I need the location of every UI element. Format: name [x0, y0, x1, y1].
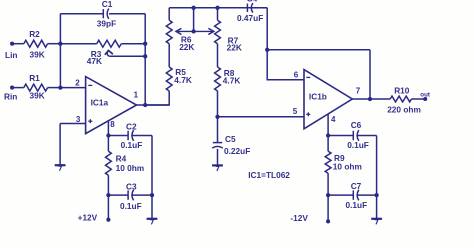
- svg-text:0.22uF: 0.22uF: [224, 146, 250, 156]
- wire C6 right column drop: [376, 136, 378, 196]
- svg-text:8: 8: [110, 120, 115, 129]
- node Lin input terminal: [10, 42, 14, 46]
- node R4-C3 junction: [106, 193, 110, 197]
- svg-text:C3: C3: [126, 181, 137, 191]
- capacitor C1: [102, 9, 104, 18]
- resistor R1: [24, 84, 48, 91]
- svg-text:IC1a: IC1a: [91, 97, 109, 107]
- capacitor C6: [352, 131, 354, 140]
- svg-text:39K: 39K: [30, 49, 45, 59]
- wire C1 top right: [109, 13, 145, 15]
- node C3 right junction: [150, 193, 154, 197]
- wire C4 drop: [267, 8, 304, 80]
- wiper arrow to R6: [176, 30, 213, 32]
- svg-text:0.1uF: 0.1uF: [347, 140, 369, 150]
- svg-text:220 ohm: 220 ohm: [387, 105, 421, 115]
- svg-text:2: 2: [75, 79, 80, 88]
- ground C7 column: [371, 218, 382, 220]
- wire R7 to R8: [217, 44, 219, 67]
- wire IC1b feedback drop: [369, 50, 371, 99]
- svg-text:C4: C4: [247, 0, 258, 4]
- wire node column vertical: [59, 14, 61, 88]
- capacitor C2: [127, 131, 129, 140]
- wire IC1a output: [137, 104, 170, 106]
- svg-text:R10: R10: [394, 86, 410, 96]
- svg-text:R2: R2: [29, 29, 40, 39]
- resistor R4: [106, 151, 112, 175]
- node Rin input terminal: [10, 86, 14, 90]
- resistor R9: [325, 151, 331, 173]
- node wiper junction: [191, 29, 195, 33]
- svg-text:R4: R4: [116, 154, 127, 164]
- resistor R8: [215, 67, 221, 91]
- ground pin3: [55, 164, 66, 166]
- wire +12V stub: [107, 195, 109, 220]
- node rail-wiper junction: [191, 6, 195, 10]
- wire IC1a pin 8: [107, 121, 109, 136]
- wire wiper stub: [193, 8, 195, 32]
- wire R2 to node A: [48, 43, 61, 45]
- node feedback-R3 junction: [143, 42, 147, 46]
- svg-text:4.7K: 4.7K: [174, 75, 192, 85]
- svg-text:0.47uF: 0.47uF: [237, 13, 263, 23]
- svg-text:4: 4: [331, 115, 336, 124]
- wire R6 top stub: [168, 8, 170, 20]
- node pin4 junction: [326, 133, 330, 137]
- wire R6 to R5: [168, 44, 170, 67]
- node feedback-wiper junction: [143, 54, 147, 58]
- node C7 right junction: [374, 193, 378, 197]
- svg-text:47K: 47K: [87, 56, 102, 66]
- wire R7 top stub: [217, 8, 219, 20]
- wire C2 right column drop: [151, 136, 153, 196]
- node pin8 junction: [106, 133, 110, 137]
- wire top rail: [169, 7, 267, 9]
- svg-text:IC1b: IC1b: [309, 91, 327, 101]
- svg-text:1: 1: [134, 91, 139, 100]
- IC1a plus marker: [88, 120, 92, 122]
- resistor R7: [215, 20, 221, 44]
- IC1b minus marker: [306, 76, 310, 78]
- IC1b plus marker: [306, 113, 310, 115]
- wire R9 to C7 junction: [327, 173, 329, 195]
- wire C3 right: [132, 194, 152, 196]
- svg-text:out: out: [420, 91, 430, 98]
- wire R1 to node B: [48, 87, 61, 89]
- wire -12V stub: [327, 195, 329, 221]
- svg-text:7: 7: [356, 86, 361, 95]
- capacitor C3: [127, 190, 129, 199]
- node C4-feedback junction: [265, 48, 269, 52]
- node IC1a output junction: [143, 103, 147, 107]
- resistor R10: [390, 96, 411, 102]
- node A junction: [58, 42, 62, 46]
- op-amp IC1b: [304, 70, 352, 129]
- wire pin8 to C2: [108, 135, 128, 137]
- wire R10 to out: [412, 98, 426, 100]
- capacitor C5: [213, 142, 222, 144]
- wire R3 wiper: [110, 55, 145, 57]
- wire pin4 to R9: [327, 136, 329, 152]
- svg-text:0.1uF: 0.1uF: [120, 201, 142, 211]
- svg-text:22K: 22K: [227, 43, 242, 53]
- node B junction: [58, 85, 62, 89]
- ground C5: [212, 164, 223, 166]
- capacitor C7: [352, 190, 354, 199]
- svg-text:6: 6: [294, 70, 299, 79]
- resistor R3: [97, 40, 122, 47]
- svg-text:Rin: Rin: [4, 92, 17, 102]
- resistor R6: [166, 20, 172, 44]
- svg-text:C2: C2: [126, 121, 137, 131]
- svg-text:C5: C5: [225, 134, 236, 144]
- wire node A to R3: [60, 43, 96, 45]
- svg-text:0.1uF: 0.1uF: [346, 200, 368, 210]
- svg-text:39pF: 39pF: [97, 19, 116, 29]
- node rail-R7 junction: [215, 6, 219, 10]
- wire C7 right: [357, 194, 376, 196]
- node R9-C7 junction: [326, 193, 330, 197]
- wire C1 top left: [60, 13, 103, 15]
- op-amp IC1a: [86, 77, 137, 134]
- svg-text:R1: R1: [29, 73, 40, 83]
- IC1a minus marker: [88, 84, 92, 86]
- capacitor C4: [246, 4, 248, 12]
- ground C3 column: [147, 218, 158, 220]
- wire C7 column to ground: [376, 195, 378, 218]
- node -12V terminal: [326, 219, 330, 223]
- resistor R5: [166, 67, 172, 91]
- wire pin5 node to IC1b: [218, 116, 305, 118]
- resistor R2: [24, 40, 48, 47]
- node R8-C5 junction: [215, 115, 219, 119]
- svg-text:C1: C1: [102, 0, 113, 9]
- wiper arrow to R7: [209, 29, 214, 35]
- node out terminal: [423, 97, 427, 101]
- svg-text:39K: 39K: [30, 91, 45, 101]
- wiper arrow R3: [107, 52, 110, 56]
- svg-text:C7: C7: [351, 181, 362, 191]
- wire R5 to output: [145, 91, 169, 105]
- wire C2 to right column: [132, 135, 152, 137]
- wire IC1b pin 4: [327, 114, 329, 136]
- svg-text:-12V: -12V: [290, 213, 308, 223]
- wire C7 left: [328, 194, 353, 196]
- wire C3 left: [108, 194, 128, 196]
- wire pin3 ground drop: [59, 124, 61, 166]
- node +12V terminal: [106, 218, 110, 222]
- wire IC1a pin 3: [60, 123, 86, 125]
- svg-text:C6: C6: [351, 120, 362, 130]
- svg-text:IC1=TL062: IC1=TL062: [248, 170, 290, 180]
- svg-text:+12V: +12V: [78, 213, 98, 223]
- wire C5 to ground: [217, 149, 219, 165]
- wire R8 to pin5 node: [217, 91, 219, 117]
- svg-text:0.1uF: 0.1uF: [121, 140, 143, 150]
- wire R3 to feedback node: [121, 43, 145, 45]
- wire C6 to right column: [357, 135, 376, 137]
- wire R4 to C3 junction: [107, 175, 109, 195]
- wire node B to IC1a pin 2: [60, 87, 85, 89]
- wire IC1b feedback top: [267, 49, 370, 51]
- wire pin4 to C6: [328, 135, 353, 137]
- wire feedback vertical: [144, 14, 146, 105]
- node IC1b output junction: [368, 97, 372, 101]
- svg-text:10 ohm: 10 ohm: [333, 161, 362, 171]
- svg-text:Lin: Lin: [5, 50, 17, 60]
- svg-text:10 0hm: 10 0hm: [116, 163, 145, 173]
- wire Rin to R1: [12, 87, 24, 89]
- svg-text:22K: 22K: [179, 42, 194, 52]
- svg-text:4.7K: 4.7K: [223, 75, 241, 85]
- wire IC1b output: [352, 98, 390, 100]
- wire C3 column to ground: [151, 195, 153, 218]
- svg-text:5: 5: [293, 107, 298, 116]
- wire pin5 node to C5: [217, 117, 219, 143]
- wire Lin to R2: [12, 43, 24, 45]
- wire pin8 to R4: [107, 136, 109, 152]
- wire rail right of C4: [253, 7, 267, 9]
